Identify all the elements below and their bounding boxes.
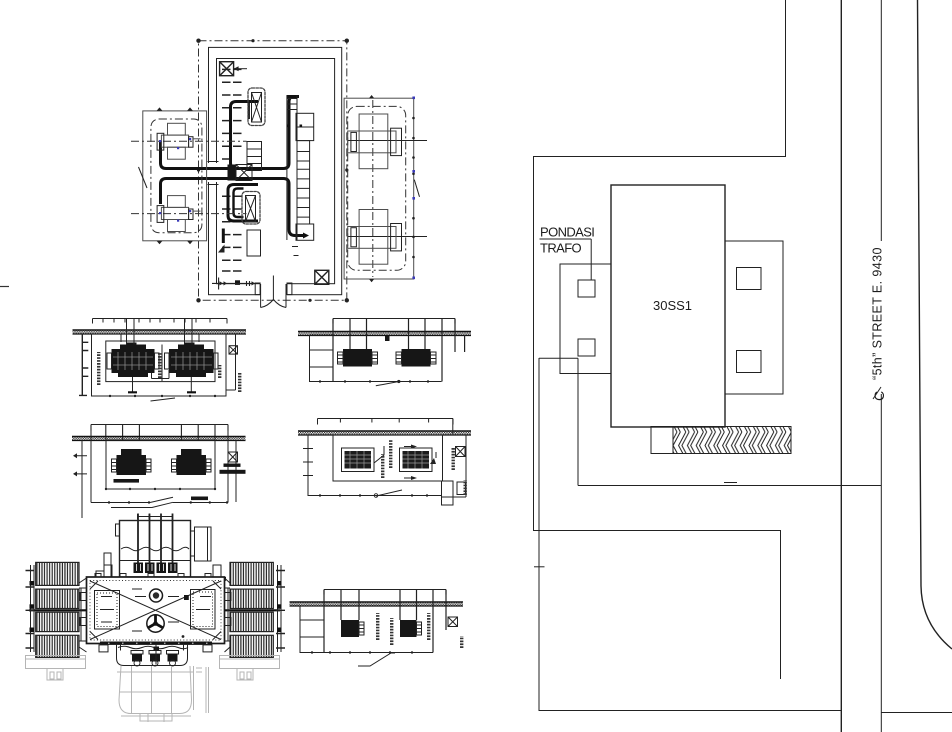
bay rounded dashdot <box>151 119 202 233</box>
riser tray rungs <box>297 152 310 218</box>
manhole circle <box>150 589 163 602</box>
S4 section arrows <box>411 445 436 481</box>
S2 inner bottom dots <box>105 488 228 504</box>
S4 tiny label right2 <box>464 480 467 495</box>
S5 X-box <box>448 617 458 627</box>
left pad foot <box>47 669 63 681</box>
trafo T3 vertical body <box>359 114 388 169</box>
door center mullion <box>272 276 274 300</box>
svg-text:C: C <box>871 391 887 401</box>
S1 stem feet <box>128 391 196 393</box>
thick cable B lower loop <box>161 179 305 236</box>
bay right dim dots <box>412 117 415 259</box>
S2 block 1 tabs <box>112 459 152 472</box>
rod cap 4 <box>168 563 178 574</box>
S4 block 2 texture <box>403 451 430 469</box>
right radiator section 4 <box>230 635 273 657</box>
door leaf left <box>260 284 262 308</box>
S4 mid leader <box>374 446 384 463</box>
door swing arc right <box>273 300 286 308</box>
S1 left dim column <box>79 334 88 395</box>
S2 right column <box>235 440 237 502</box>
S2 block 2 cap <box>181 449 202 455</box>
street west curb line <box>840 0 842 732</box>
S4 block 1 texture <box>345 451 372 469</box>
right connector frame <box>225 578 231 652</box>
bay blue end dots <box>412 97 415 280</box>
S2 block 2 <box>177 455 207 475</box>
bay h-line lower <box>348 236 427 238</box>
door leaf right <box>285 284 287 308</box>
X-box top-left <box>220 62 234 76</box>
S2 X-box <box>228 452 238 462</box>
left main pipe <box>29 609 87 611</box>
S2 left arrows <box>73 453 77 476</box>
bay outline <box>344 98 414 279</box>
S4 ground hatch band <box>298 432 471 435</box>
S4 bottom dots <box>319 494 428 496</box>
S3 posts <box>333 319 465 382</box>
thick stub bottom-left <box>222 229 225 244</box>
tank X brace <box>90 581 221 640</box>
conservator main box <box>120 521 191 578</box>
X-box top-left stub <box>234 68 247 70</box>
bay leader diagonal <box>139 167 148 188</box>
pondasi pad 2 <box>578 339 595 356</box>
S4 top dim line <box>318 419 454 425</box>
oil level wavy line <box>121 547 189 551</box>
bay tick marks <box>157 107 194 244</box>
S4 left column <box>303 435 313 496</box>
S4 hatched block 2 fill <box>403 451 430 469</box>
S4 tiny label right <box>452 448 455 470</box>
left header pipes <box>31 565 35 652</box>
thick inner c-duct lower <box>234 189 244 218</box>
bay centerline lower <box>131 213 247 215</box>
pondasi pad 1 <box>578 280 595 297</box>
S1 X-box <box>229 346 238 354</box>
trafo T2 left cap <box>157 206 164 223</box>
conservator left tab <box>116 524 120 536</box>
S2 bar under block1 <box>114 479 140 483</box>
apron chevron hatch second pass <box>673 427 791 454</box>
S4 arrow tails <box>404 447 436 479</box>
conservator left pipe <box>104 553 111 577</box>
S1 tiny label 4 <box>238 373 241 392</box>
S3 block 1 tabs <box>338 352 378 364</box>
turret outline <box>117 644 188 666</box>
blue snap dots <box>159 138 191 222</box>
annex pad 1 <box>737 268 762 290</box>
svg-text:“5th” STREET E. 9430: “5th” STREET E. 9430 <box>871 247 885 380</box>
street centerline upper segment <box>880 0 882 241</box>
S2 ground line <box>72 436 246 438</box>
S3 pit rect <box>310 335 442 382</box>
underlay tank body <box>119 666 192 714</box>
rod cap 1 <box>134 563 144 574</box>
wheel circle <box>147 615 164 632</box>
S4 right X-box <box>456 447 466 457</box>
underlay base <box>140 714 172 722</box>
left radiator section 1 <box>36 562 79 585</box>
left pad outline <box>26 656 86 669</box>
S5 bottom leader <box>358 653 395 666</box>
door jamb left <box>255 283 260 295</box>
bay rounded dashdot <box>348 106 406 270</box>
left lug stack <box>96 565 112 577</box>
small tick above connector <box>724 482 737 484</box>
S4 tiny label mid2 <box>381 454 384 478</box>
trafo T2 body <box>161 207 188 219</box>
wheel spokes <box>148 615 162 628</box>
X-column upper <box>252 93 262 123</box>
S4 right column <box>442 419 467 498</box>
door opening white gap <box>260 283 287 297</box>
bottom boundary right segment <box>881 712 952 714</box>
boundary lower-left vertical <box>539 358 842 711</box>
bay vertical centerline <box>372 100 374 277</box>
street centerline lower segment <box>880 394 882 732</box>
bushing rod 3 <box>160 514 162 573</box>
S1 mass 2 side caps <box>165 353 170 369</box>
S2 dark bar right 2 <box>220 470 246 474</box>
S3 leader <box>376 382 399 386</box>
S1 trafo mass 2 cap <box>178 345 204 350</box>
S1 mass 1 feet <box>118 373 148 377</box>
S4 leader circle <box>374 494 378 498</box>
feeder vertical from pondasi <box>577 358 579 485</box>
label leader <box>590 239 592 280</box>
bottom interior arrows <box>220 281 256 285</box>
tank bottom flange <box>100 642 212 645</box>
thick C-duct upper <box>231 102 259 169</box>
svg-text:PONDASI: PONDASI <box>540 225 594 240</box>
building 30SS1 <box>611 185 725 427</box>
S5 tiny label 3 <box>427 613 430 640</box>
rod cap 3 <box>157 563 167 574</box>
right pad outline <box>220 656 280 669</box>
svg-text:30SS1: 30SS1 <box>653 298 692 313</box>
S2 outer box <box>91 425 228 503</box>
S1 top dimension line <box>93 319 228 324</box>
S2 block 1 cap <box>121 449 142 455</box>
label underline <box>540 238 592 240</box>
bushing rod 1 <box>137 514 139 573</box>
annex pad 2 <box>737 351 762 373</box>
riser mid tray <box>297 141 310 224</box>
trafo T2 bottom box <box>168 220 186 232</box>
tank bolt rim <box>90 581 221 641</box>
S3 ground line <box>298 331 471 333</box>
trafo T4 vertical body <box>359 210 388 265</box>
right main pipe <box>225 609 281 611</box>
conservator shelf line <box>120 560 190 562</box>
tank top lugs <box>95 574 211 578</box>
S3 leader dot <box>397 380 400 383</box>
thick stub upper <box>247 103 249 120</box>
S2 ground hatch band <box>72 437 246 440</box>
edge dash-dot stub <box>0 286 9 288</box>
S2 left column <box>77 440 87 518</box>
S1 mid notch <box>152 370 170 379</box>
left pipe pads <box>30 581 35 632</box>
bushing rod 4 <box>172 514 174 573</box>
S1 bushing stack 2 <box>184 343 195 352</box>
left pipe stubs <box>80 593 87 626</box>
tank corner braces <box>90 581 221 640</box>
trafo T4 cross bar <box>348 227 396 249</box>
trafo T2 top box <box>168 196 186 208</box>
left connector frame <box>79 578 87 652</box>
S1 trafo mass 1 cap <box>120 345 146 350</box>
S5 block 1 <box>341 620 359 637</box>
turret wavy top <box>118 646 188 649</box>
bushing 2 <box>149 651 161 667</box>
S5 posts <box>324 590 446 653</box>
riser bottom box <box>296 224 314 240</box>
bay outline <box>143 111 207 241</box>
right radiator section 1 <box>230 562 273 585</box>
right lug stack <box>213 565 221 577</box>
trafo T3 right cap <box>391 128 402 155</box>
riser top box <box>296 113 314 140</box>
S2 top edge line <box>91 425 228 441</box>
underlay verticals <box>132 666 172 713</box>
S1 bushing posts <box>121 319 199 349</box>
bay diagonal leader <box>414 180 419 197</box>
right radiator section 3 <box>230 612 273 631</box>
right header pipes <box>278 565 282 652</box>
small dot lower <box>182 635 185 638</box>
side radiator box right <box>191 527 212 561</box>
S1 tiny label 2 <box>158 353 161 378</box>
rod cap 2 <box>145 563 155 574</box>
trafo T1 left cap <box>157 133 164 150</box>
bay h-line upper <box>348 140 427 142</box>
S3 ground hatch band <box>298 332 471 335</box>
S5 pit rect <box>300 606 433 653</box>
X-box stub arrowhead <box>234 66 239 71</box>
trafo T1 bottom box <box>168 147 186 159</box>
riser rail left <box>286 96 288 241</box>
bushing rod 2 <box>149 514 151 573</box>
junction box hatched <box>236 165 252 181</box>
svg-text:TRAFO: TRAFO <box>540 241 582 256</box>
plan fence dash-dot boundary <box>199 41 347 301</box>
wall sleeve marks <box>208 162 219 185</box>
S3 bottom dots <box>319 380 429 382</box>
small fitting right of manhole <box>184 595 189 600</box>
left radiator section 3 <box>36 612 79 631</box>
cable A top bar <box>287 95 300 98</box>
annex east block <box>725 241 783 394</box>
S5 block 2 tab <box>417 622 422 635</box>
right header flanges <box>276 571 285 649</box>
trafo T1 top box <box>168 123 186 135</box>
S4 hatched block 2 outer <box>400 448 433 472</box>
S1 trafo mass 2 <box>169 349 214 373</box>
bottom flange dots <box>108 642 208 644</box>
property boundary north vertical <box>534 0 786 679</box>
trafo T1 right cap <box>189 137 193 148</box>
centerline symbol slash <box>873 387 881 399</box>
underlay dim ticks <box>121 714 191 722</box>
S5 bottom dots <box>311 651 413 653</box>
tank right panel <box>191 590 216 630</box>
conservator dim line <box>138 514 174 519</box>
trafo T4 right cap <box>391 224 402 251</box>
S2 inner box <box>106 440 215 489</box>
S4 right small box <box>457 482 466 495</box>
bottom flag <box>218 245 225 253</box>
left radiator section 4 <box>36 635 79 657</box>
jack pad left <box>99 645 108 652</box>
trafo T1 stub <box>193 138 201 140</box>
S2 bar right bottom <box>191 497 208 501</box>
wall opening for cables <box>208 163 218 182</box>
trafo T3 cross bar <box>348 131 396 153</box>
S3 small dark square <box>385 336 390 341</box>
S1 tiny label 1 <box>97 352 100 385</box>
bottom interior ticks <box>212 278 256 290</box>
X-column lower <box>246 196 256 222</box>
underlay side mark <box>194 666 209 713</box>
S5 top line <box>324 590 446 595</box>
S4 tiny label mid <box>389 440 392 468</box>
S5 block 2 <box>400 620 417 637</box>
S1 ground line <box>73 329 247 331</box>
S2 block 2 tabs <box>172 459 212 472</box>
junction box dark <box>228 165 237 181</box>
bottom interior dark square <box>235 280 240 285</box>
S3 block 1 <box>343 349 372 367</box>
tank interior dashes <box>101 589 211 631</box>
riser top rungs <box>287 99 297 110</box>
bushing 3 <box>167 651 179 667</box>
left header flanges <box>26 571 35 649</box>
feeder connector to street <box>578 485 881 487</box>
S1 trafo mass 1 <box>112 349 155 373</box>
building outer wall <box>209 47 342 294</box>
building inner wall <box>217 59 335 284</box>
wheel hub <box>153 621 158 626</box>
jack pad right <box>203 645 212 652</box>
fence corner dots <box>196 39 349 303</box>
tick on lower-left vertical <box>534 566 545 568</box>
trafo T2 stub <box>193 210 201 212</box>
bushing 1 <box>131 651 143 667</box>
S5 tiny label 4 <box>460 636 463 648</box>
S1 tiny label 3 <box>218 365 221 378</box>
S4 outer box <box>333 435 443 481</box>
S1 right column <box>226 334 236 390</box>
rod cap slits <box>137 564 176 571</box>
S5 tiny label 1 <box>376 613 379 640</box>
riser dark dots <box>287 125 302 128</box>
bottom center rect <box>247 230 261 256</box>
pondasi feeder h-line <box>539 357 578 359</box>
right pipe pads <box>277 581 282 632</box>
right pad foot <box>237 669 253 681</box>
S1 bottom leader <box>151 398 176 401</box>
S1 mass 2 feet <box>176 373 206 377</box>
flange bolt dots <box>106 578 216 580</box>
S4 bottom leader <box>376 490 402 496</box>
turret drop lines <box>121 644 184 665</box>
pondasi trafo outline <box>560 264 611 374</box>
S2 dark bars right <box>224 464 241 467</box>
bay top/bottom ticks <box>369 95 374 282</box>
S3 top line <box>333 319 455 324</box>
cable B end arrow <box>303 233 309 239</box>
S4 bottom line <box>308 495 442 497</box>
S1 mass drop stems <box>133 377 192 393</box>
scallop cloud upper <box>248 88 265 126</box>
S1 mass 2 texture <box>171 352 212 370</box>
trafo T3 left cap <box>351 132 357 151</box>
S4 hatched block 1 outer <box>342 448 375 472</box>
right pipe stubs <box>225 593 232 626</box>
S5 tiny label 2 <box>390 618 393 645</box>
S5 ground hatch band <box>290 603 464 606</box>
S2 bottom break <box>111 497 173 507</box>
left pad inner line <box>26 658 86 660</box>
S2 block 1 <box>117 455 147 475</box>
door jamb right <box>287 283 292 295</box>
thick cable A upper loop <box>161 97 299 169</box>
underlay top lines <box>117 672 193 692</box>
X-box bottom-right <box>315 270 329 284</box>
door swing arc left <box>261 300 274 308</box>
S1 pit outer rect <box>92 334 227 396</box>
S1 bushing stack 1 <box>126 343 137 352</box>
bay centerline upper <box>131 140 247 142</box>
tank top flange <box>100 577 226 581</box>
S1 mass 1 texture <box>113 352 153 370</box>
left interior tick ladder <box>222 69 242 271</box>
scallop cloud lower <box>242 192 260 225</box>
S4 hatched block 1 fill <box>345 451 372 469</box>
interior mid dashes right <box>292 247 299 256</box>
right pad inner line <box>220 658 280 660</box>
center valve <box>154 647 160 651</box>
trafo T2 right cap <box>189 209 193 220</box>
tank outline <box>87 577 225 644</box>
thick C-duct lower <box>228 185 258 222</box>
street east curb with corner curve <box>918 0 952 649</box>
left radiator section 2 <box>36 589 79 608</box>
S5 block 1 tab <box>359 622 364 635</box>
manhole inner <box>153 592 159 598</box>
S1 pit inner rect <box>106 341 215 382</box>
S3 block 2 tabs <box>396 352 436 364</box>
trafo T4 left cap <box>351 228 357 247</box>
S1 bottom dots <box>109 395 216 397</box>
apron strip outline <box>651 427 791 454</box>
S1 ground hatch band <box>73 331 247 334</box>
S4 ground line <box>298 430 471 432</box>
riser rail right <box>296 96 298 241</box>
apron chevron hatch <box>673 427 791 454</box>
S1 inner divider <box>161 345 163 382</box>
mid grid box <box>247 142 262 171</box>
right radiator section 2 <box>230 589 273 608</box>
S3 block 2 <box>402 349 431 367</box>
S5 ground line <box>290 601 464 603</box>
trafo T1 body <box>161 135 188 147</box>
street name text rotated <box>871 247 885 380</box>
tank left panel <box>95 591 120 630</box>
